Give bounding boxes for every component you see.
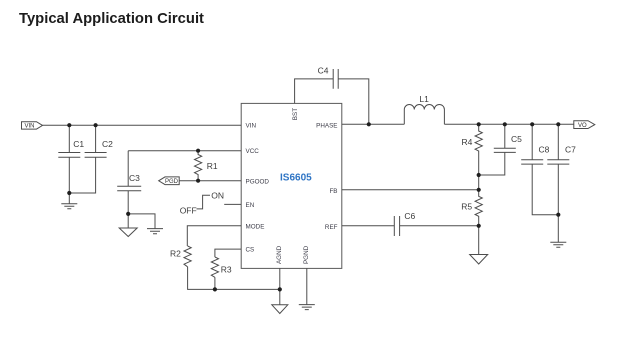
capacitor C3 <box>117 151 141 214</box>
svg-text:OFF: OFF <box>180 205 197 215</box>
svg-text:L1: L1 <box>419 94 429 104</box>
svg-text:C7: C7 <box>565 145 576 155</box>
svg-text:C4: C4 <box>318 66 329 76</box>
svg-text:VCC: VCC <box>246 148 260 155</box>
node junction C7 top <box>556 122 560 126</box>
svg-text:VO: VO <box>578 123 587 129</box>
svg-text:R4: R4 <box>462 137 473 147</box>
wire bottom AGND net <box>188 267 280 290</box>
node junction C4-PHASE <box>367 122 371 126</box>
node junction C5 top <box>503 122 507 126</box>
ground triangle below C3 <box>119 214 137 237</box>
node junction C8 top <box>530 122 534 126</box>
resistor R3 <box>211 257 218 277</box>
ground bars below C7 <box>550 242 566 247</box>
svg-text:ON: ON <box>211 191 224 201</box>
ground bars below PGND <box>299 305 315 310</box>
wire CS <box>215 249 241 257</box>
capacitor C5 <box>479 124 516 175</box>
svg-text:PGOOD: PGOOD <box>246 178 270 185</box>
node junction R3 bottom <box>213 287 217 291</box>
resistor R5 <box>475 190 482 226</box>
wire PGOOD <box>179 180 241 182</box>
node junction C8-C7 bottom <box>556 213 560 217</box>
wire MODE <box>187 226 241 246</box>
wire FB <box>342 189 479 191</box>
op-amp U1 IS6605 IC body <box>241 103 342 268</box>
node junction R4 bottom <box>477 173 481 177</box>
node junction C3 bottom <box>126 212 130 216</box>
capacitor C7 <box>547 124 569 242</box>
svg-text:IS6605: IS6605 <box>280 173 312 184</box>
wire AGND pin <box>279 268 281 304</box>
svg-text:REF: REF <box>325 224 338 231</box>
node junction C1 bottom <box>67 191 71 195</box>
node junction R4 top <box>477 122 481 126</box>
resistor R4 <box>475 124 482 175</box>
svg-text:PGND: PGND <box>303 245 310 264</box>
svg-text:C1: C1 <box>73 139 84 149</box>
ground triangle below R5 <box>470 226 488 264</box>
resistor R1 <box>195 151 202 181</box>
node junction FB <box>477 188 481 192</box>
svg-text:AGND: AGND <box>276 245 283 264</box>
capacitor C4 <box>333 69 369 124</box>
svg-text:R3: R3 <box>221 265 232 275</box>
svg-text:PHASE: PHASE <box>316 122 337 129</box>
node junction AGND <box>278 287 282 291</box>
capacitor C2 <box>69 125 106 193</box>
inductor L1 <box>404 104 444 124</box>
ground triangle below AGND <box>272 305 288 314</box>
node junction VIN-C2 <box>94 123 98 127</box>
svg-text:VIN: VIN <box>25 124 35 130</box>
node VIN tag <box>22 122 43 129</box>
wire VIN rail <box>43 124 242 126</box>
svg-text:PGD: PGD <box>165 179 179 185</box>
svg-text:VIN: VIN <box>246 123 257 130</box>
svg-text:C6: C6 <box>404 211 415 221</box>
capacitor C6 <box>394 216 399 236</box>
svg-text:BST: BST <box>292 108 299 120</box>
wire REF <box>342 225 479 227</box>
wire EN <box>224 203 241 205</box>
resistor R2 <box>184 246 191 267</box>
node junction VIN-C1 <box>67 123 71 127</box>
svg-text:FB: FB <box>329 188 337 195</box>
ground bars right of C3 <box>128 214 163 234</box>
wire VCC <box>128 150 241 152</box>
svg-text:C2: C2 <box>102 139 113 149</box>
ground below C1 <box>61 193 77 209</box>
switch ON/OFF for EN <box>197 195 211 209</box>
capacitor C8 <box>521 124 558 214</box>
svg-text:C8: C8 <box>539 145 550 155</box>
wire VO rail <box>444 123 573 125</box>
svg-text:EN: EN <box>246 202 255 209</box>
node junction R1 top <box>196 149 200 153</box>
node VO tag <box>574 121 595 129</box>
svg-text:R1: R1 <box>207 161 218 171</box>
svg-text:R2: R2 <box>170 249 181 259</box>
svg-text:MODE: MODE <box>246 223 265 230</box>
wire PGND pin <box>306 268 308 304</box>
svg-text:Typical Application Circuit: Typical Application Circuit <box>19 11 204 27</box>
node junction R1 bottom <box>196 179 200 183</box>
node PGD tag <box>159 177 180 185</box>
svg-text:C3: C3 <box>129 173 140 183</box>
svg-text:CS: CS <box>246 247 255 254</box>
wire PHASE rail <box>342 123 405 125</box>
capacitor C1 <box>58 125 80 193</box>
wire BST <box>295 79 334 104</box>
svg-text:R5: R5 <box>461 202 472 212</box>
node junction R5 bottom <box>477 224 481 228</box>
wire R4 to FB node <box>478 175 480 190</box>
svg-text:C5: C5 <box>511 134 522 144</box>
